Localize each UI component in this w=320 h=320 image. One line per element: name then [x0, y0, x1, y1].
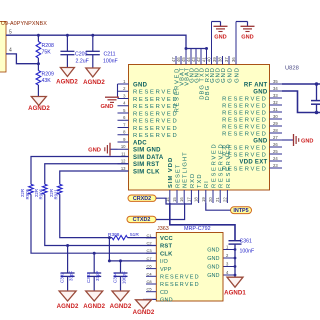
svg-text:VDD EXT: VDD EXT: [239, 159, 267, 165]
svg-text:C2: C2: [147, 241, 153, 246]
resistor R208: [37, 34, 40, 37]
svg-text:RF ANT: RF ANT: [244, 82, 268, 88]
svg-text:21: 21: [215, 197, 220, 202]
pin 1 (GND): [118, 83, 129, 85]
svg-text:C3: C3: [147, 248, 153, 253]
svg-text:R911: R911: [54, 189, 59, 200]
top pin 44 (GND): [190, 49, 192, 65]
svg-text:RI: RI: [204, 180, 210, 188]
pin 24 (VDD_EXT): [270, 160, 283, 162]
svg-text:15: 15: [172, 197, 177, 202]
ground symbol at pin 10 SIM_GND: [110, 148, 118, 150]
svg-text:22R: 22R: [49, 189, 54, 197]
ground at pin 27: [282, 139, 293, 141]
svg-text:11: 11: [121, 151, 126, 156]
pin 30 (RESERVED): [270, 118, 283, 120]
top pin 43 (GND): [195, 49, 197, 65]
pin 34 (GND): [270, 90, 283, 92]
svg-text:27: 27: [273, 135, 278, 140]
top GND symbol A: [212, 21, 221, 23]
SIM pin C1 (VCC): [146, 237, 156, 239]
svg-text:35: 35: [273, 79, 278, 84]
wire RI pin to INTP5: [206, 203, 231, 210]
capacitor C361 100nF: [229, 240, 242, 242]
svg-text:37: 37: [224, 57, 229, 62]
svg-text:40: 40: [207, 57, 212, 62]
svg-text:22R: 22R: [34, 189, 39, 197]
svg-text:CRXD2: CRXD2: [133, 196, 151, 202]
svg-text:RESERVED: RESERVED: [211, 143, 217, 188]
svg-text:18: 18: [194, 197, 199, 202]
top GND symbol B: [236, 21, 248, 23]
capacitor C211: [91, 34, 94, 37]
svg-text:RESERVED: RESERVED: [133, 104, 178, 110]
wire R308 to SIM VCC: [128, 237, 159, 239]
wire SIM_VDD pin 14 to C361: [170, 203, 235, 240]
svg-text:RESERVED: RESERVED: [222, 117, 267, 123]
bottom pin 22 (RESERVED): [226, 190, 228, 203]
svg-text:30: 30: [273, 114, 278, 119]
svg-text:100nF: 100nF: [240, 248, 255, 254]
net label CRXD2: [128, 195, 156, 201]
svg-text:RESERVED: RESERVED: [133, 90, 178, 96]
pin 7 (RESERVED): [118, 127, 129, 129]
svg-text:C361: C361: [240, 239, 253, 245]
svg-text:22: 22: [222, 197, 227, 202]
svg-text:CD: CD: [160, 290, 168, 296]
svg-text:RESERVED: RESERVED: [222, 131, 267, 137]
bottom pin 21 (RESERVED): [219, 190, 221, 203]
svg-text:12: 12: [121, 159, 126, 164]
capacitor C303 33pF: [93, 253, 95, 273]
svg-text:C5: C5: [147, 287, 153, 292]
wire R906 to SIM RST row: [45, 194, 158, 245]
svg-text:100nF: 100nF: [103, 59, 118, 65]
pin 32 (RESERVED): [270, 104, 283, 106]
pin 33 (RESERVED): [270, 97, 283, 99]
top pin 39 (GND): [216, 56, 218, 65]
svg-text:4: 4: [9, 48, 12, 54]
GND wire pin 34: [282, 91, 320, 113]
svg-text:AGND2: AGND2: [83, 303, 105, 310]
ground symbol at pin 1: [117, 84, 119, 97]
ground AGND2 under SIM connector: [136, 300, 152, 309]
svg-text:RESERVED: RESERVED: [222, 124, 267, 130]
wire SIM_DATA pin 11: [31, 157, 129, 185]
bottom pin 14 (SIM_VDD): [169, 190, 171, 203]
svg-text:C304: C304: [113, 272, 118, 283]
wire CTXD2 to NETLIGHT pin: [156, 203, 185, 220]
svg-text:C303: C303: [86, 272, 91, 283]
svg-text:RESERVED: RESERVED: [133, 119, 178, 125]
svg-text:RESERVED: RESERVED: [133, 126, 178, 132]
svg-text:SIM RST: SIM RST: [133, 162, 159, 168]
pin 26 (RESERVED): [270, 146, 283, 148]
bottom pin 15 (RESET): [176, 190, 178, 203]
net label INTP5: [231, 207, 252, 214]
wire SIM_RST pin 12: [45, 164, 129, 185]
top pin 40 (GND): [211, 22, 213, 65]
bottom pin 18 (TXD): [198, 190, 200, 203]
svg-text:AGND2: AGND2: [110, 303, 132, 310]
svg-text:SIM VDD: SIM VDD: [168, 157, 174, 188]
top pin 38 (GND): [222, 56, 224, 65]
SIM pin C3 (CLK): [146, 252, 156, 254]
SIM pin C8 (RESERVED): [146, 283, 156, 285]
svg-text:ADC: ADC: [133, 140, 147, 146]
wire pin4 to divider tap: [6, 54, 38, 64]
svg-text:RESET: RESET: [175, 164, 181, 188]
pin 2 (RESERVED): [118, 90, 129, 92]
svg-text:13: 13: [121, 166, 126, 171]
svg-text:U828: U828: [285, 66, 299, 72]
resistor R209: [37, 64, 39, 71]
ground AGND2 under R209: [31, 97, 46, 106]
svg-text:32: 32: [273, 100, 278, 105]
svg-text:GND: GND: [207, 256, 219, 262]
pin 12 (SIM_RST): [118, 163, 129, 165]
branch wire to SIM I/O row: [108, 238, 110, 261]
pin 11 (SIM_DATA): [118, 156, 129, 158]
bottom pin 17 (RXD): [190, 190, 192, 203]
svg-text:RESERVED: RESERVED: [160, 282, 200, 288]
svg-text:C4: C4: [147, 271, 153, 276]
svg-text:GND: GND: [227, 67, 233, 83]
svg-text:RESERVED: RESERVED: [222, 96, 267, 102]
svg-text:28: 28: [273, 128, 278, 133]
SIM connector J363 body: [156, 233, 223, 302]
svg-text:C209: C209: [75, 52, 88, 58]
RF_ANT wire pin 35: [282, 83, 320, 85]
svg-text:GND: GND: [207, 273, 219, 279]
ground AGND2 under C302: [59, 291, 76, 301]
pin 9 (ADC): [118, 141, 129, 143]
svg-text:C211: C211: [104, 52, 116, 58]
pin 6 (RESERVED): [118, 119, 129, 121]
svg-text:34: 34: [273, 86, 278, 91]
svg-text:GND: GND: [253, 138, 268, 144]
svg-text:RESERVED: RESERVED: [222, 103, 267, 109]
pin 31 (RESERVED): [270, 111, 283, 113]
SIM pin C2 (RST): [146, 245, 156, 247]
svg-text:RESERVED: RESERVED: [219, 143, 225, 188]
ground AGND1 under C361: [227, 277, 243, 287]
top pin 42 (DBG_TXD): [200, 49, 202, 65]
svg-text:C6: C6: [147, 264, 153, 269]
SIM pin GND (GND): [146, 298, 156, 300]
svg-text:26: 26: [273, 142, 278, 147]
svg-text:22R: 22R: [20, 189, 25, 197]
svg-text:VCC: VCC: [160, 236, 173, 242]
svg-text:MRP-C792: MRP-C792: [184, 226, 211, 232]
pin 23 (RESERVED): [270, 167, 283, 169]
svg-text:RESERVED: RESERVED: [222, 110, 267, 116]
svg-text:R209: R209: [42, 72, 55, 78]
net label CTXD2: [127, 216, 156, 222]
top pin 36 (GND): [235, 22, 237, 65]
svg-text:39: 39: [212, 57, 217, 62]
svg-text:INTP5: INTP5: [233, 208, 248, 214]
svg-text:GND: GND: [101, 104, 114, 110]
svg-text:I/O: I/O: [160, 259, 168, 265]
SIM pin C6 (VPP): [146, 268, 156, 270]
pin 8 (RESERVED): [118, 134, 129, 136]
antenna capacitor at right edge: [316, 84, 318, 100]
svg-text:RESERVED: RESERVED: [133, 111, 178, 117]
svg-text:16: 16: [179, 197, 184, 202]
svg-text:2.2uF: 2.2uF: [76, 59, 89, 65]
svg-text:33pF: 33pF: [95, 270, 100, 281]
svg-text:GND: GND: [207, 265, 219, 271]
svg-text:AGND2: AGND2: [83, 79, 105, 86]
svg-text:AGND2: AGND2: [56, 79, 78, 86]
svg-text:AGND1: AGND1: [224, 290, 246, 297]
connector P9 (left edge): [0, 22, 6, 73]
capacitor C302 33pF: [67, 246, 69, 273]
svg-text:17: 17: [186, 197, 191, 202]
svg-text:GND: GND: [133, 82, 148, 88]
svg-text:23: 23: [273, 163, 278, 168]
resistor R906 22R: [42, 184, 47, 194]
resistor R308 51R: [112, 235, 128, 239]
module IC U828 body: [129, 65, 270, 191]
svg-text:RXD: RXD: [190, 173, 196, 188]
svg-text:19: 19: [201, 197, 206, 202]
ground AGND2 under C211: [86, 68, 100, 77]
svg-text:AGND2: AGND2: [28, 105, 50, 112]
svg-text:20: 20: [208, 197, 213, 202]
svg-text:RESERVED: RESERVED: [133, 133, 178, 139]
wire CRXD2 to RXD pin: [156, 198, 191, 204]
bottom pin 19 (RI): [205, 190, 207, 203]
ground AGND2 under C303: [86, 291, 103, 301]
svg-text:SIM DATA: SIM DATA: [133, 155, 164, 161]
ground AGND2 under C304: [112, 291, 129, 301]
svg-text:R208: R208: [42, 43, 55, 49]
wire R911 to R308: [60, 194, 112, 237]
SIM pin C7 (I/O): [146, 260, 156, 262]
svg-text:R905: R905: [25, 188, 30, 199]
svg-text:29: 29: [273, 121, 278, 126]
svg-text:GND: GND: [301, 138, 313, 144]
pin 13 (SIM_CLK): [118, 170, 129, 172]
svg-text:U9-A0PYNPXNBX: U9-A0PYNPXNBX: [1, 21, 47, 27]
svg-text:31: 31: [273, 107, 278, 112]
svg-text:38: 38: [218, 57, 223, 62]
svg-text:GND: GND: [160, 298, 173, 304]
top pin 41 (DBG_RXD): [206, 49, 208, 65]
wire to SIM I/O: [109, 260, 158, 262]
svg-text:SIM GND: SIM GND: [133, 148, 161, 154]
svg-text:10: 10: [121, 144, 126, 149]
svg-text:CLK: CLK: [160, 251, 173, 257]
svg-text:36: 36: [231, 57, 236, 62]
svg-text:R906: R906: [39, 188, 44, 199]
top pin 45 (VBAT): [185, 49, 187, 65]
svg-text:RST: RST: [160, 244, 172, 250]
bottom pin 20 (RESERVED): [212, 190, 214, 203]
svg-text:C1: C1: [147, 233, 153, 238]
svg-text:RESERVED: RESERVED: [226, 143, 232, 188]
svg-text:GND: GND: [241, 35, 253, 41]
top pin 46 (VBAT): [180, 56, 182, 65]
svg-text:C302: C302: [60, 272, 65, 283]
pin 3 (RESERVED): [118, 98, 129, 100]
svg-text:24: 24: [273, 156, 278, 161]
pin 5 (RESERVED): [118, 112, 129, 114]
capacitor C304 100pF: [120, 261, 122, 273]
svg-text:42: 42: [196, 57, 201, 62]
svg-text:J363: J363: [157, 226, 169, 232]
svg-text:33pF: 33pF: [69, 270, 74, 281]
top pin 37 (GND): [228, 56, 230, 65]
capacitor C209: [66, 34, 69, 37]
svg-text:R308: R308: [108, 232, 120, 238]
svg-text:C7: C7: [147, 256, 153, 261]
resistor R911 22R: [57, 184, 62, 194]
svg-text:GND: GND: [214, 35, 226, 41]
wire SIM_CLK pin 13: [60, 171, 129, 184]
svg-text:GND: GND: [234, 67, 240, 83]
pin 27 (GND): [270, 139, 283, 141]
svg-text:TXD: TXD: [197, 173, 203, 188]
svg-text:CTXD2: CTXD2: [133, 217, 151, 223]
wire pin5 to VBAT bus: [6, 35, 207, 48]
svg-text:GND: GND: [88, 148, 101, 154]
svg-text:RESERVED: RESERVED: [133, 97, 178, 103]
svg-text:100pF: 100pF: [122, 271, 127, 284]
svg-text:C8: C8: [147, 279, 153, 284]
pin 25 (RESERVED): [270, 153, 283, 155]
svg-text:SIM CLK: SIM CLK: [133, 169, 160, 175]
svg-text:75K: 75K: [42, 50, 52, 56]
pin 35 (RF_ANT): [270, 83, 283, 85]
ground AGND2 under C209: [60, 68, 74, 77]
svg-text:RESERVED: RESERVED: [160, 275, 200, 281]
svg-text:GND: GND: [253, 89, 268, 95]
svg-text:43K: 43K: [42, 78, 52, 84]
pin 29 (RESERVED): [270, 125, 283, 127]
bottom pin 16 (NETLIGHT): [183, 190, 185, 203]
SIM pin C5 (CD): [146, 291, 156, 293]
pin 4 (RESERVED): [118, 105, 129, 107]
svg-text:GND: GND: [207, 248, 219, 254]
svg-text:AGND2: AGND2: [57, 303, 79, 310]
svg-text:VPP: VPP: [160, 267, 172, 273]
resistor R905 22R: [29, 184, 34, 194]
svg-text:33: 33: [273, 93, 278, 98]
pin 10 (SIM_GND): [118, 148, 129, 150]
wire SIM GND pin to ground: [144, 298, 157, 300]
SIM shield GND stubs: [223, 249, 235, 251]
top pin 47 (RESERVED): [175, 56, 177, 65]
svg-text:NETLIGHT: NETLIGHT: [183, 151, 189, 188]
SIM pin C4 (RESERVED): [146, 275, 156, 277]
pin 28 (RESERVED): [270, 132, 283, 134]
svg-text:GND: GND: [221, 67, 227, 83]
wire R905 to SIM CLK row: [31, 194, 158, 253]
svg-text:25: 25: [273, 149, 278, 154]
svg-text:AGND2: AGND2: [133, 309, 155, 316]
